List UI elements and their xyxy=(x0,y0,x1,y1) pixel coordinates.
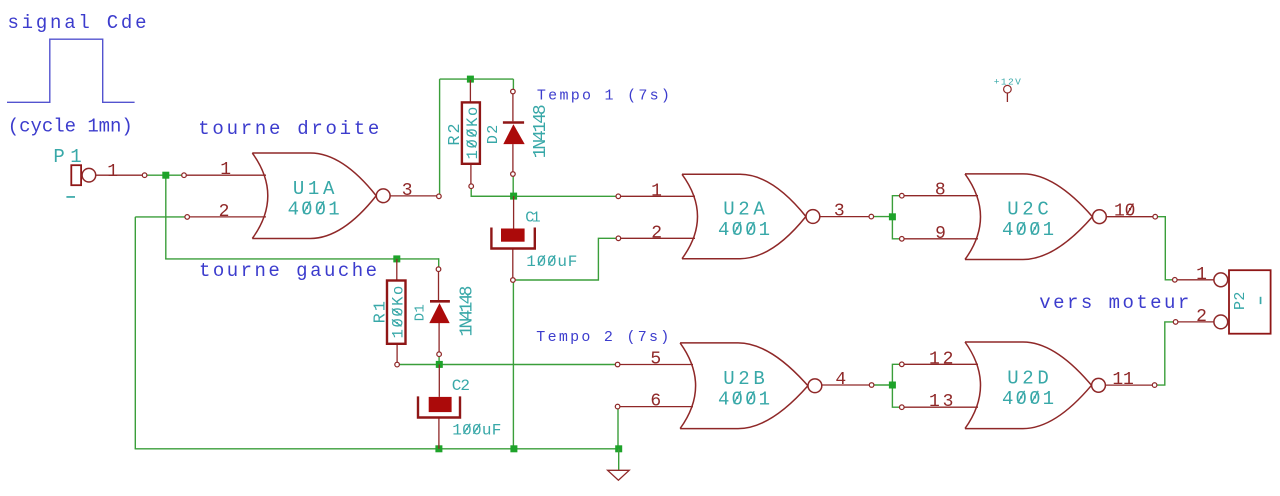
svg-text:5: 5 xyxy=(650,350,661,370)
svg-text:3: 3 xyxy=(834,202,845,222)
wire bottom ground rail xyxy=(135,448,619,450)
svg-text:100Ko: 100Ko xyxy=(464,107,482,160)
svg-text:(cycle 1mn): (cycle 1mn) xyxy=(8,116,133,138)
pin 9 of U2C xyxy=(902,224,978,244)
pin 12 of U2D xyxy=(902,349,978,369)
wire U2B output to node xyxy=(872,384,893,386)
pin 10 of U2C (output) xyxy=(1106,202,1155,222)
svg-text:8: 8 xyxy=(935,181,946,201)
pin-end marker U1A pin2 / wire xyxy=(185,215,190,220)
pin-end marker U2A pin2 / wire xyxy=(616,236,621,241)
pin 1 of P1 xyxy=(96,162,145,182)
connector P2 xyxy=(1214,270,1271,334)
svg-text:2: 2 xyxy=(1196,307,1207,327)
svg-text:6: 6 xyxy=(650,392,661,412)
pin 2 of U2A xyxy=(618,223,695,243)
pin-end marker U2D pin12 / wire xyxy=(900,362,905,367)
capacitor C1 100uF xyxy=(491,196,577,278)
wire U2D output to P2 pin2 xyxy=(1155,322,1176,385)
pin 2 of U1A xyxy=(187,202,266,222)
pin-end marker U2D pin13 / wire xyxy=(900,405,905,410)
pin-end marker D1 top / wire xyxy=(436,267,441,272)
svg-text:U2B: U2B xyxy=(723,368,765,390)
svg-text:11: 11 xyxy=(1112,370,1133,390)
pin-end marker U2C pin9 / wire xyxy=(900,237,905,242)
pin 3 of U1A (output) xyxy=(390,181,439,201)
svg-text:2: 2 xyxy=(219,202,230,222)
junction ground rail / C2 bottom xyxy=(435,445,442,452)
svg-text:100uF: 100uF xyxy=(452,422,501,440)
pin-end marker U1A pin1 / wire xyxy=(182,173,187,178)
pin-end marker P2 pin1 / wire xyxy=(1173,278,1178,283)
pin 1 of U1A xyxy=(184,160,266,180)
svg-text:1N4148: 1N4148 xyxy=(531,104,551,158)
svg-text:R2: R2 xyxy=(446,123,465,145)
svg-text:U1A: U1A xyxy=(293,178,335,200)
power symbol +12V xyxy=(994,77,1021,103)
svg-text:3: 3 xyxy=(402,181,413,201)
wire C1 bottom to U2A pin2 xyxy=(515,238,618,280)
junction ground rail / U2B pin6 / ground symbol xyxy=(615,445,622,452)
resistor R1 100Ko xyxy=(372,259,408,363)
wire drop to D1 anode top xyxy=(438,258,440,269)
pin 4 of U2B (output) xyxy=(822,370,872,390)
pin-end marker U2A pin1 / wire xyxy=(616,194,621,199)
wire left vertical rail xyxy=(134,217,136,449)
wire tourne gauche row xyxy=(165,258,439,260)
diode D1 1N4148 xyxy=(412,271,477,352)
svg-text:vers moteur: vers moteur xyxy=(1039,292,1189,314)
nor-gate U2B 4001 xyxy=(680,343,822,429)
pin-end marker D2 top xyxy=(511,89,516,94)
junction top rail / R2 top xyxy=(467,76,474,83)
capacitor C2 100uF xyxy=(418,364,501,448)
pin-end marker D1 bottom xyxy=(437,352,442,357)
wire vertical from node A down to tourne-gauche row xyxy=(165,175,167,259)
pin 1 of P2 xyxy=(1175,265,1215,285)
junction tourne gauche / R1 top xyxy=(393,255,400,262)
pin-end marker U2B pin5 / wire xyxy=(615,362,620,367)
wire U2A output to node xyxy=(871,216,892,218)
pin-end marker U2C pin8 / wire xyxy=(900,193,905,198)
wire U1A input2 row xyxy=(135,216,187,218)
pin 2 of P2 xyxy=(1176,307,1215,327)
wire Tempo1 row to U2A pin1 xyxy=(471,195,618,197)
pin-end marker P1 pin1 / wire xyxy=(142,173,147,178)
svg-text:U2C: U2C xyxy=(1007,199,1049,221)
junction ground rail / C1 branch xyxy=(510,445,517,452)
pin 1 of U2A xyxy=(618,181,695,201)
pin-end marker U2B pin4 / wire xyxy=(869,383,874,388)
wire C1 bottom vertical to ground rail xyxy=(512,280,514,449)
connector P1 xyxy=(53,146,95,198)
wire U2C input bracket xyxy=(892,196,901,239)
wire top rail above R2/D2 xyxy=(440,78,514,80)
pin-end marker U2A pin3 / wire xyxy=(869,214,874,219)
ground symbol xyxy=(608,449,630,480)
svg-text:1: 1 xyxy=(651,181,662,201)
svg-text:1: 1 xyxy=(107,162,118,182)
pin 6 of U2B xyxy=(618,392,693,412)
svg-text:C1: C1 xyxy=(525,209,540,226)
pin 5 of U2B xyxy=(618,350,693,370)
svg-text:D2: D2 xyxy=(485,125,502,144)
wire D2 top stub xyxy=(512,79,514,89)
svg-text:4: 4 xyxy=(835,370,846,390)
wire U1A output vertical up to top rail xyxy=(439,79,441,196)
svg-text:C2: C2 xyxy=(452,377,470,395)
diode D2 1N4148 xyxy=(485,94,551,172)
nor-gate U1A 4001 xyxy=(252,153,390,239)
wire U2D input bracket xyxy=(892,364,901,407)
pin-end marker U2B pin6 / wire xyxy=(615,404,620,409)
pin-end marker R2 bottom xyxy=(469,184,474,189)
nor-gate U2D 4001 xyxy=(965,342,1105,429)
pin 13 of U2D xyxy=(902,392,978,412)
wire D1 cathode stub xyxy=(438,356,440,364)
waveform graphic (signal Cde pulse) xyxy=(7,39,135,102)
wire P1 pin1 to junction xyxy=(145,174,184,176)
pin-end marker D2 bottom xyxy=(511,172,516,177)
pin-end marker U2C pin10 / wire xyxy=(1153,214,1158,219)
wire D2 bottom stub to junction xyxy=(512,176,514,197)
pin-end marker P2 pin2 / wire xyxy=(1173,320,1178,325)
wire U2C output to P2 pin1 xyxy=(1155,217,1175,280)
pin 3 of U2A (output) xyxy=(820,202,872,222)
junction Tempo2 row / D1 bottom / C2 top xyxy=(436,361,443,368)
svg-text:1: 1 xyxy=(220,160,231,180)
resistor R2 100Ko xyxy=(446,80,482,184)
svg-text:9: 9 xyxy=(935,224,946,244)
svg-text:100Ko: 100Ko xyxy=(389,286,407,339)
pin-end marker U2D pin11 / wire xyxy=(1152,383,1157,388)
junction U2A out / U2C inputs xyxy=(889,213,896,220)
svg-text:R1: R1 xyxy=(372,301,391,323)
pin-end marker R1 bottom / wire xyxy=(395,362,400,367)
svg-text:D1: D1 xyxy=(412,304,428,321)
junction node A (P1/U1A/tourne gauche) xyxy=(162,172,169,179)
svg-text:2: 2 xyxy=(651,223,662,243)
nor-gate U2C 4001 xyxy=(965,174,1106,260)
junction Tempo1 row / C1 top / D2 bottom xyxy=(510,193,517,200)
pin-end marker U1A pin3 / wire xyxy=(437,194,442,199)
svg-text:U2D: U2D xyxy=(1007,367,1049,389)
wire U2B pin6 drop to rail xyxy=(617,407,619,449)
svg-text:P2: P2 xyxy=(1232,292,1249,311)
svg-text:100uF: 100uF xyxy=(526,253,577,271)
junction U2B out / U2D inputs xyxy=(889,382,896,389)
pin-end marker C1 bottom / wire xyxy=(511,278,516,283)
nor-gate U2A 4001 xyxy=(682,174,820,258)
svg-text:U2A: U2A xyxy=(723,199,765,221)
wire R2 bottom stub xyxy=(471,188,510,196)
pin 11 of U2D (output) xyxy=(1105,370,1154,390)
wire Tempo2 row (R1/D1 bottom to U2B pin5) xyxy=(397,364,617,366)
pin 8 of U2C xyxy=(902,181,978,201)
svg-text:1N4148: 1N4148 xyxy=(457,286,477,337)
svg-text:1: 1 xyxy=(1196,265,1207,285)
